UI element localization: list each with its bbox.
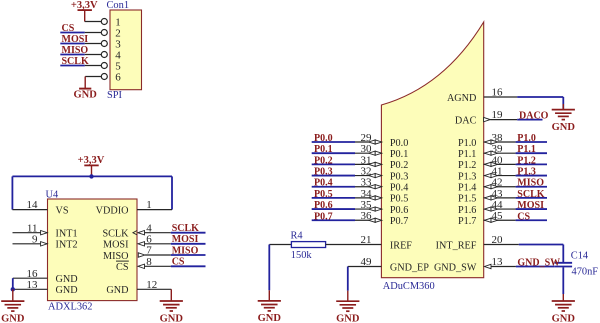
svg-text:8: 8 — [146, 256, 152, 268]
svg-text:SCLK: SCLK — [517, 189, 544, 200]
svg-text:1: 1 — [146, 199, 152, 211]
svg-text:12: 12 — [146, 279, 157, 291]
svg-text:P1.0: P1.0 — [517, 133, 536, 144]
svg-text:P1.3: P1.3 — [458, 171, 476, 182]
svg-text:P0.7: P0.7 — [314, 211, 333, 222]
svg-text:GND: GND — [336, 314, 360, 323]
svg-text:CS: CS — [172, 257, 185, 268]
svg-text:ADXL362: ADXL362 — [48, 302, 92, 313]
svg-text:GND_EP: GND_EP — [390, 262, 429, 273]
svg-text:MOSI: MOSI — [103, 240, 129, 251]
svg-text:DACO: DACO — [519, 111, 549, 122]
svg-text:GND: GND — [74, 89, 98, 100]
svg-text:GND_SW: GND_SW — [517, 258, 560, 269]
svg-text:INT1: INT1 — [56, 229, 78, 240]
svg-text:P0.3: P0.3 — [390, 171, 408, 182]
svg-text:MISO: MISO — [517, 178, 544, 189]
svg-text:CS: CS — [62, 23, 75, 34]
svg-text:P0.3: P0.3 — [314, 167, 333, 178]
svg-text:P0.1: P0.1 — [314, 144, 333, 155]
svg-text:P1.4: P1.4 — [458, 183, 476, 194]
svg-text:IREF: IREF — [390, 240, 412, 251]
svg-text:P0.2: P0.2 — [314, 155, 333, 166]
svg-text:P0.2: P0.2 — [390, 160, 408, 171]
svg-text:P0.6: P0.6 — [390, 205, 408, 216]
svg-text:GND: GND — [1, 313, 25, 323]
svg-text:P0.4: P0.4 — [314, 178, 333, 189]
svg-text:150k: 150k — [291, 250, 313, 261]
svg-text:VDDIO: VDDIO — [96, 205, 129, 216]
svg-text:MOSI: MOSI — [172, 234, 199, 245]
svg-text:GND_SW: GND_SW — [434, 262, 477, 273]
svg-text:P1.0: P1.0 — [458, 138, 476, 149]
svg-text:6: 6 — [115, 71, 121, 83]
svg-text:P1.5: P1.5 — [458, 194, 476, 205]
svg-text:7: 7 — [146, 245, 152, 257]
svg-text:+3,3V: +3,3V — [71, 0, 98, 11]
svg-text:P0.5: P0.5 — [390, 194, 408, 205]
svg-text:MISO: MISO — [62, 45, 89, 56]
svg-text:SCLK: SCLK — [172, 223, 199, 234]
svg-text:AGND: AGND — [447, 93, 476, 104]
svg-text:P0.4: P0.4 — [390, 183, 408, 194]
svg-text:36: 36 — [361, 210, 373, 222]
svg-text:SPI: SPI — [107, 90, 123, 101]
svg-text:P0.1: P0.1 — [390, 149, 408, 160]
svg-text:P1.2: P1.2 — [517, 155, 536, 166]
svg-text:GND: GND — [552, 313, 576, 323]
svg-text:U4: U4 — [46, 190, 60, 201]
svg-text:45: 45 — [492, 210, 504, 222]
svg-text:GND: GND — [106, 285, 128, 296]
svg-text:6: 6 — [146, 233, 152, 245]
svg-text:Con1: Con1 — [107, 0, 130, 11]
svg-text:VS: VS — [56, 205, 69, 216]
svg-text:14: 14 — [27, 199, 39, 211]
svg-text:P1.6: P1.6 — [458, 205, 476, 216]
svg-text:MISO: MISO — [103, 251, 128, 262]
svg-text:C14: C14 — [571, 251, 589, 262]
svg-text:GND: GND — [552, 122, 576, 133]
svg-text:CS: CS — [116, 262, 129, 273]
svg-text:P0.7: P0.7 — [390, 216, 408, 227]
svg-text:470nF: 470nF — [572, 267, 599, 278]
svg-text:P1.2: P1.2 — [458, 160, 476, 171]
svg-text:MOSI: MOSI — [62, 34, 89, 45]
svg-text:P1.7: P1.7 — [458, 216, 476, 227]
svg-text:P0.6: P0.6 — [314, 200, 333, 211]
svg-text:SCLK: SCLK — [102, 229, 129, 240]
svg-text:DAC: DAC — [455, 115, 477, 126]
svg-text:P0.0: P0.0 — [390, 138, 408, 149]
svg-text:P1.1: P1.1 — [458, 149, 476, 160]
svg-text:INT2: INT2 — [56, 240, 78, 251]
svg-text:ADuCM360: ADuCM360 — [383, 281, 435, 292]
svg-text:MOSI: MOSI — [517, 200, 544, 211]
svg-text:13: 13 — [27, 279, 39, 291]
svg-text:GND: GND — [56, 285, 78, 296]
svg-text:GND: GND — [160, 313, 184, 323]
svg-text:9: 9 — [32, 233, 38, 245]
svg-text:P1.3: P1.3 — [517, 167, 536, 178]
svg-text:P1.1: P1.1 — [517, 144, 536, 155]
svg-text:CS: CS — [517, 211, 530, 222]
svg-text:MISO: MISO — [172, 245, 199, 256]
svg-text:P0.5: P0.5 — [314, 189, 333, 200]
svg-text:SCLK: SCLK — [62, 56, 89, 67]
svg-text:INT_REF: INT_REF — [436, 240, 477, 251]
svg-text:R4: R4 — [291, 231, 304, 242]
svg-text:P0.0: P0.0 — [314, 133, 333, 144]
svg-text:GND: GND — [258, 313, 282, 323]
svg-text:+3,3V: +3,3V — [78, 155, 105, 166]
svg-text:GND: GND — [56, 274, 78, 285]
